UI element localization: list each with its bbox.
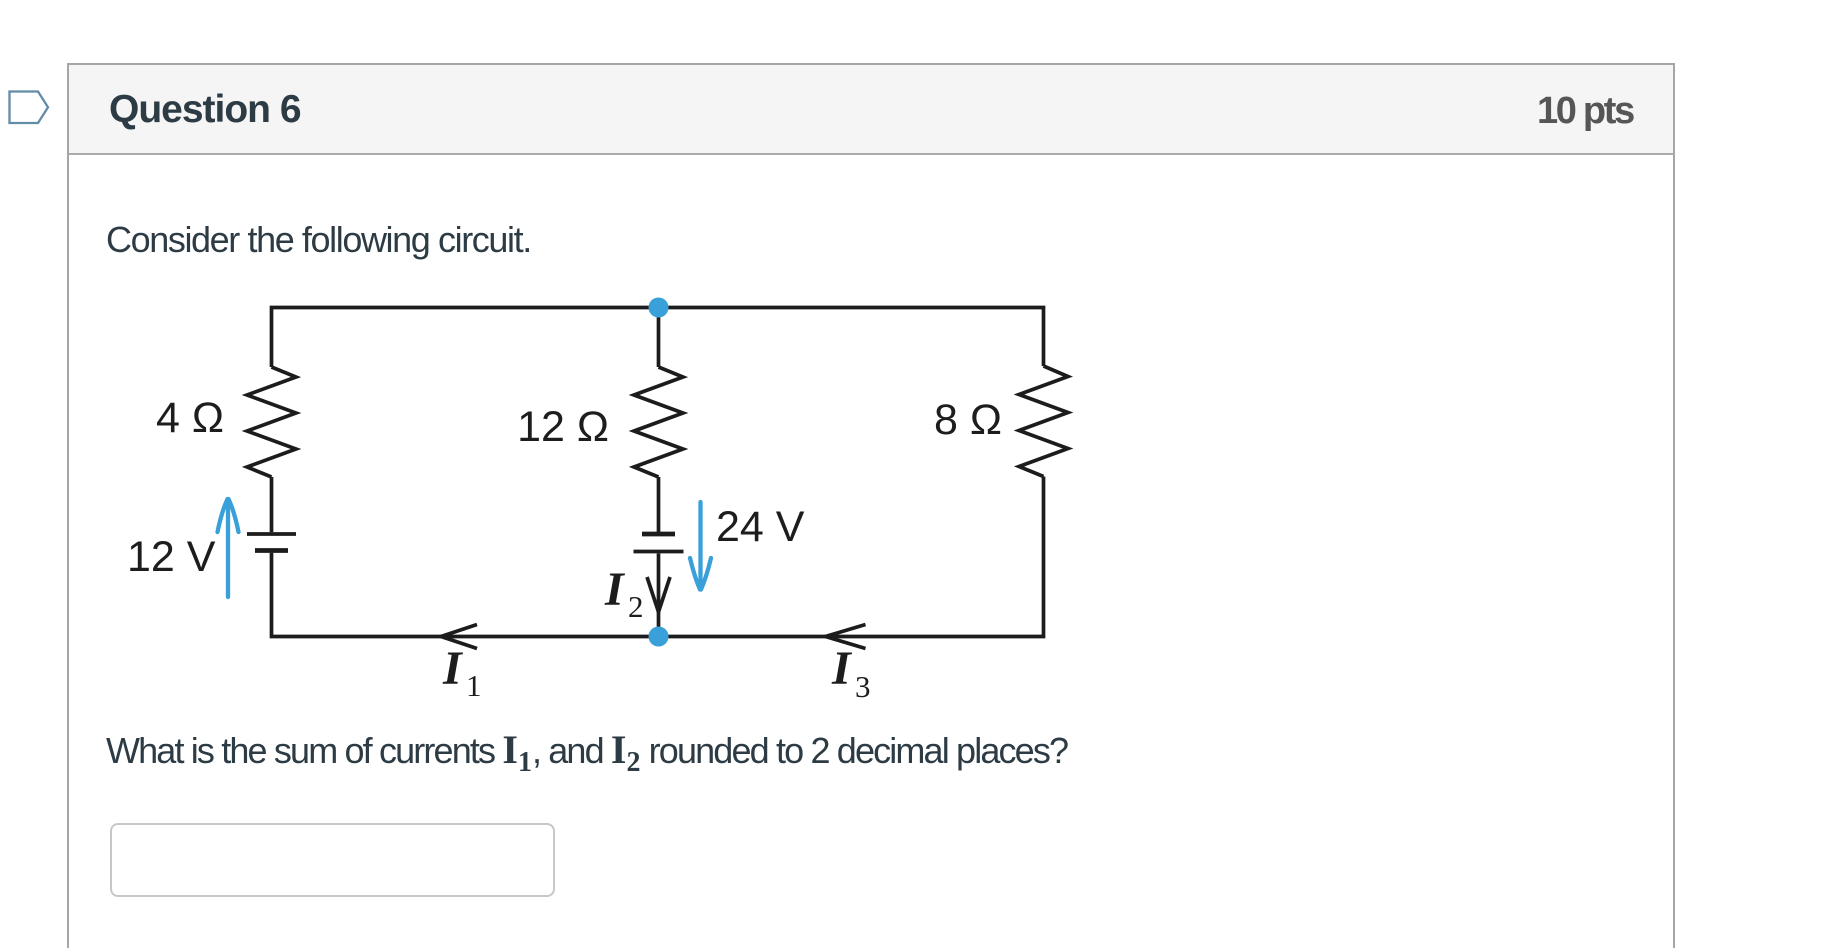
arrow 24V polarity blue down (690, 502, 711, 590)
wire middle branch to bottom node (657, 554, 661, 635)
wire middle branch below resistor (657, 477, 661, 532)
svg-text:3: 3 (855, 669, 871, 704)
arrowhead current I3 on bottom wire (826, 625, 866, 649)
svg-text:2: 2 (628, 589, 644, 624)
svg-text:4 Ω: 4 Ω (156, 394, 224, 442)
arrowhead current I2 on middle branch (647, 577, 670, 612)
svg-text:24 V: 24 V (716, 503, 805, 551)
svg-text:12 Ω: 12 Ω (517, 403, 609, 451)
svg-text:I: I (604, 563, 626, 616)
svg-text:12 V: 12 V (127, 533, 216, 581)
svg-text:8 Ω: 8 Ω (934, 396, 1002, 444)
svg-text:I: I (442, 642, 464, 695)
circuit schematic (0, 0, 1200, 720)
battery V2 24V long plate (634, 550, 684, 554)
battery V1 12V long plate (247, 532, 296, 536)
wire middle branch top (657, 308, 661, 368)
wire bottom rail with left and right corner rises (272, 477, 1044, 637)
arrow 12V polarity blue up (218, 499, 239, 597)
wire left branch below resistor (270, 477, 274, 532)
battery V2 24V short plate (642, 532, 675, 537)
svg-text:I: I (831, 642, 853, 695)
arrowhead current I1 on bottom wire (441, 625, 477, 649)
battery V1 12V short plate (255, 548, 288, 553)
question flag icon (0, 0, 60, 140)
node A top junction dot (649, 298, 669, 318)
node B bottom junction dot (649, 627, 669, 647)
resistor R2 12ohm zigzag (634, 367, 683, 477)
resistor R3 8ohm zigzag (1019, 366, 1068, 477)
wire top rail with left and right corner drops (272, 308, 1044, 368)
svg-text:1: 1 (466, 668, 482, 703)
resistor R1 4ohm zigzag (247, 367, 296, 477)
